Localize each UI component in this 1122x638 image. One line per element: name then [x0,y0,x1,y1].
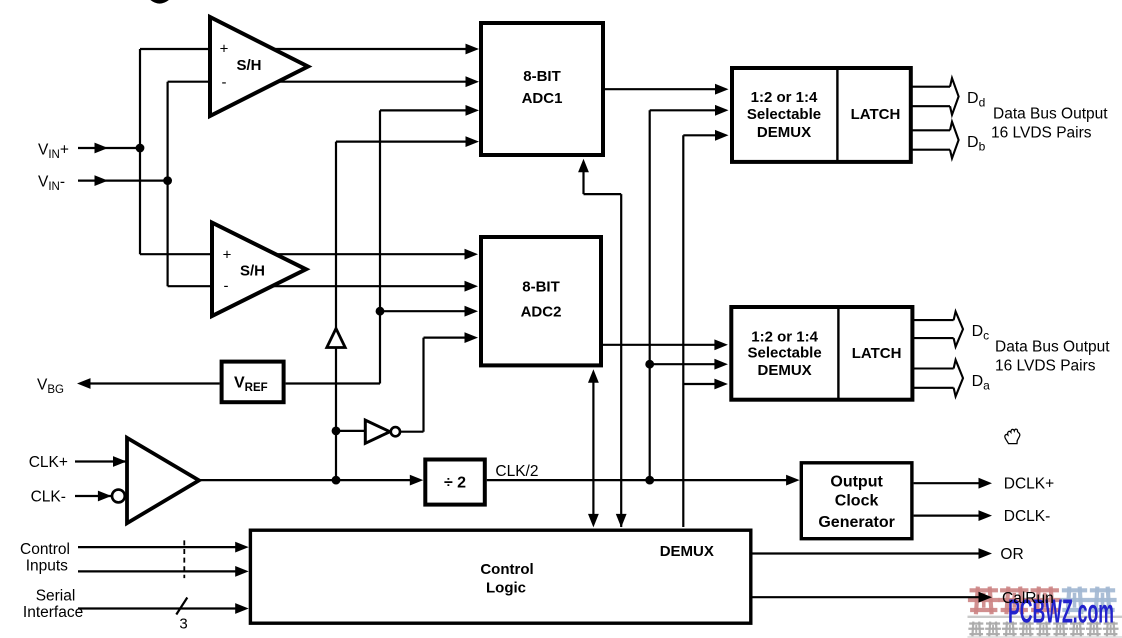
clock phase triangle symbol [327,329,345,348]
svg-text:Control: Control [480,561,533,578]
arrowhead control logic clock 2 (down) [616,514,627,528]
svg-text:8-BIT: 8-BIT [522,279,560,296]
output clock generator box [801,463,912,539]
arrowhead ADC1 input 2 [466,76,480,87]
svg-text:Generator: Generator [818,514,894,531]
svg-text:CLK-: CLK- [31,489,66,506]
watermark char blue 2 [1091,589,1115,612]
svg-text:DEMUX: DEMUX [757,124,811,141]
svg-text:CLK/2: CLK/2 [495,463,538,480]
wire ADC1 clock drop [582,171,584,194]
arrowhead DEMUX2 input 2 [714,359,728,370]
svg-text:VBG: VBG [37,376,64,395]
wire CLK/2 to DEMUX1 [650,109,717,111]
wire VIN- vertical trunk [167,82,169,287]
arrowhead ADC1 input 1 [466,44,480,55]
arrowhead CLK- [98,491,112,502]
svg-text:CLK+: CLK+ [29,454,68,471]
svg-text:Control: Control [20,541,70,558]
arrowhead control input 1 [235,542,249,553]
wire VIN- input [78,180,168,182]
bus arrow Db [912,129,950,131]
svg-text:Selectable: Selectable [747,106,821,123]
control logic box [250,530,750,623]
svg-text:ADC1: ADC1 [522,90,563,107]
arrowhead divide-by-2 input [410,475,424,486]
wire S/H1 - line to ADC1 [168,81,467,83]
node CLK/2 branch to DEMUX2 [645,360,654,369]
watermark underline [968,616,1122,618]
wire ADC1 clock riser [620,194,622,527]
svg-text:ADC2: ADC2 [521,304,562,321]
arrowhead VIN+ [95,143,109,154]
svg-text:DEMUX: DEMUX [660,543,714,560]
CLK buffer inverting bubble [112,490,125,503]
bus arrow Dd [912,86,950,88]
svg-text:CalRun: CalRun [1002,590,1054,607]
node VREF branch junction [376,307,385,316]
svg-text:DCLK+: DCLK+ [1004,476,1054,493]
svg-text:LATCH: LATCH [851,106,901,123]
wire DCLK+ output [914,482,979,484]
node clock riser junction [332,476,341,485]
wire ADC1 clock elbow [584,193,622,195]
svg-text:Dc: Dc [972,323,990,342]
wire DEMUX select to DEMUX1 [683,134,717,136]
watermark char blue 1 [1063,589,1087,612]
arrowhead control logic clock 1 (down) [588,514,599,528]
wire inverted clock riser [422,338,424,432]
svg-text:Selectable: Selectable [747,344,821,361]
svg-text:3: 3 [179,616,187,633]
CLK buffer triangle [127,438,199,523]
wire CalRun output [753,596,980,598]
DEMUX2 divider [837,307,839,400]
svg-text:16 LVDS Pairs: 16 LVDS Pairs [995,358,1096,375]
wire CLK/2 to DEMUX2 [650,363,716,365]
arrowhead ADC1 clock (up) [578,159,589,173]
arrowhead ADC2 input 1 [465,249,479,260]
arrowhead VBG (left) [77,378,91,389]
arrowhead serial interface [235,603,249,614]
watermark char pink 3 [1031,589,1059,612]
arrowhead DEMUX1 input 1 [715,84,729,95]
bus width slash [176,598,187,615]
svg-text:+: + [223,247,232,264]
wire VBG output [90,382,220,384]
svg-text:LATCH: LATCH [852,345,902,362]
wire control input 1 [78,546,237,548]
cut-off letter remnant [151,0,169,2]
bus arrow Dc [913,319,954,321]
wire VREF branch to ADC2 input 3 [380,310,466,312]
watermark gray caption 射频和天线设计专家 [970,623,1118,636]
ADC2 box [481,237,601,365]
wire CLK/2 riser [649,110,651,480]
wire inverter output [400,431,424,433]
wire VIN+ vertical trunk [139,49,141,254]
arrowhead ADC1 input 3 [466,105,480,116]
wire DEMUX select riser [682,135,684,527]
svg-text:÷ 2: ÷ 2 [444,475,466,492]
arrowhead DEMUX2 input 1 [714,339,728,350]
wire VIN+ input [78,147,140,149]
arrowhead OR [979,548,993,559]
svg-text:OR: OR [1000,546,1023,563]
wire inverted clock to ADC2 input 4 [424,337,467,339]
svg-text:16 LVDS Pairs: 16 LVDS Pairs [991,125,1092,142]
svg-text:Db: Db [967,134,986,153]
svg-text:+: + [220,41,229,58]
wire CLK/2 line [487,479,787,481]
svg-text:Logic: Logic [486,579,526,596]
DEMUX2/LATCH box [731,307,912,400]
arrowhead ADC2 input 2 [465,281,479,292]
wire serial interface input [78,607,237,609]
wire ADC2 clock line [592,381,594,514]
arrowhead ADC2 clock (up) [588,369,599,383]
node CLK/2 riser junction [645,476,654,485]
arrowhead CLK+ [113,456,127,467]
arrowhead VIN- [95,175,109,186]
arrowhead ADC2 input 4 [465,332,479,343]
svg-text:Da: Da [972,373,991,392]
op-amp S/H1 triangle [210,17,308,116]
arrowhead DEMUX1 input 2 [715,105,729,116]
arrowhead control input 2 [235,566,249,577]
svg-text:1:2 or 1:4: 1:2 or 1:4 [751,329,818,346]
wire DEMUX select to DEMUX2 [683,383,716,385]
node VIN+ junction [136,144,145,153]
svg-text:1:2 or 1:4: 1:2 or 1:4 [751,89,818,106]
wire inverter input [336,430,366,432]
arrowhead DEMUX2 input 3 [714,379,728,390]
watermark char pink 2 [1001,589,1029,612]
svg-text:Interface: Interface [23,604,83,621]
ADC1 box [481,23,603,155]
arrowhead DCLK- [979,510,993,521]
svg-text:-: - [224,278,229,295]
wire CLK- input [75,495,111,497]
wire ADC2 data out [603,344,716,346]
wire S/H2 + line to ADC2 [140,253,466,255]
svg-text:S/H: S/H [236,57,261,74]
wire S/H2 - line to ADC2 [168,285,466,287]
inverter U1 bubble [391,427,400,436]
wire S/H1 + line to ADC1 [140,48,467,50]
wire clock vertical riser [335,142,337,481]
watermark bottom line [968,636,1122,638]
wire DCLK- output [914,514,979,516]
hand cursor icon [1005,429,1020,443]
svg-text:Serial: Serial [36,587,76,604]
arrowhead ADC2 input 3 [465,306,479,317]
wire CLK buffer output [199,479,411,481]
svg-text:DEMUX: DEMUX [758,362,812,379]
svg-text:VIN-: VIN- [38,174,65,193]
wire control input 2 [78,570,237,572]
svg-text:Inputs: Inputs [26,558,68,575]
VREF box [222,362,284,403]
svg-text:Output: Output [830,473,883,490]
wire OR output [753,552,980,554]
svg-text:DCLK-: DCLK- [1004,508,1051,525]
svg-text:-: - [222,74,227,91]
wire clock to ADC1 input 4 [336,141,467,143]
inverter U1 triangle [365,420,390,443]
op-amp S/H2 triangle [212,223,306,316]
wire VREF output [286,382,380,384]
svg-text:Clock: Clock [835,493,879,510]
dashed ellipsis between control inputs [183,540,185,578]
node inverter input junction [332,427,341,436]
watermark char pink 1 [970,589,998,612]
svg-text:Data Bus Output: Data Bus Output [993,106,1108,123]
wire VREF vertical riser [379,110,381,383]
DEMUX1 divider [836,68,838,162]
wire CLK+ input [75,460,127,462]
svg-text:Dd: Dd [967,90,985,109]
wire VREF to ADC1 input 3 [380,109,467,111]
node VIN- junction [163,176,172,185]
DEMUX1/LATCH box [732,68,911,162]
svg-text:VIN+: VIN+ [38,142,69,161]
wire ADC1 data out [605,88,717,90]
arrowhead ADC1 input 4 [466,136,480,147]
arrowhead DCLK+ [979,478,993,489]
arrowhead CalRun [979,592,993,603]
svg-text:Data Bus Output: Data Bus Output [995,338,1110,355]
arrowhead output clock generator input [786,475,800,486]
arrowhead DEMUX1 input 3 [715,130,729,141]
svg-text:S/H: S/H [240,262,265,279]
svg-text:8-BIT: 8-BIT [523,68,561,85]
bus arrow Da [913,367,954,369]
divide-by-2 box [425,460,485,505]
